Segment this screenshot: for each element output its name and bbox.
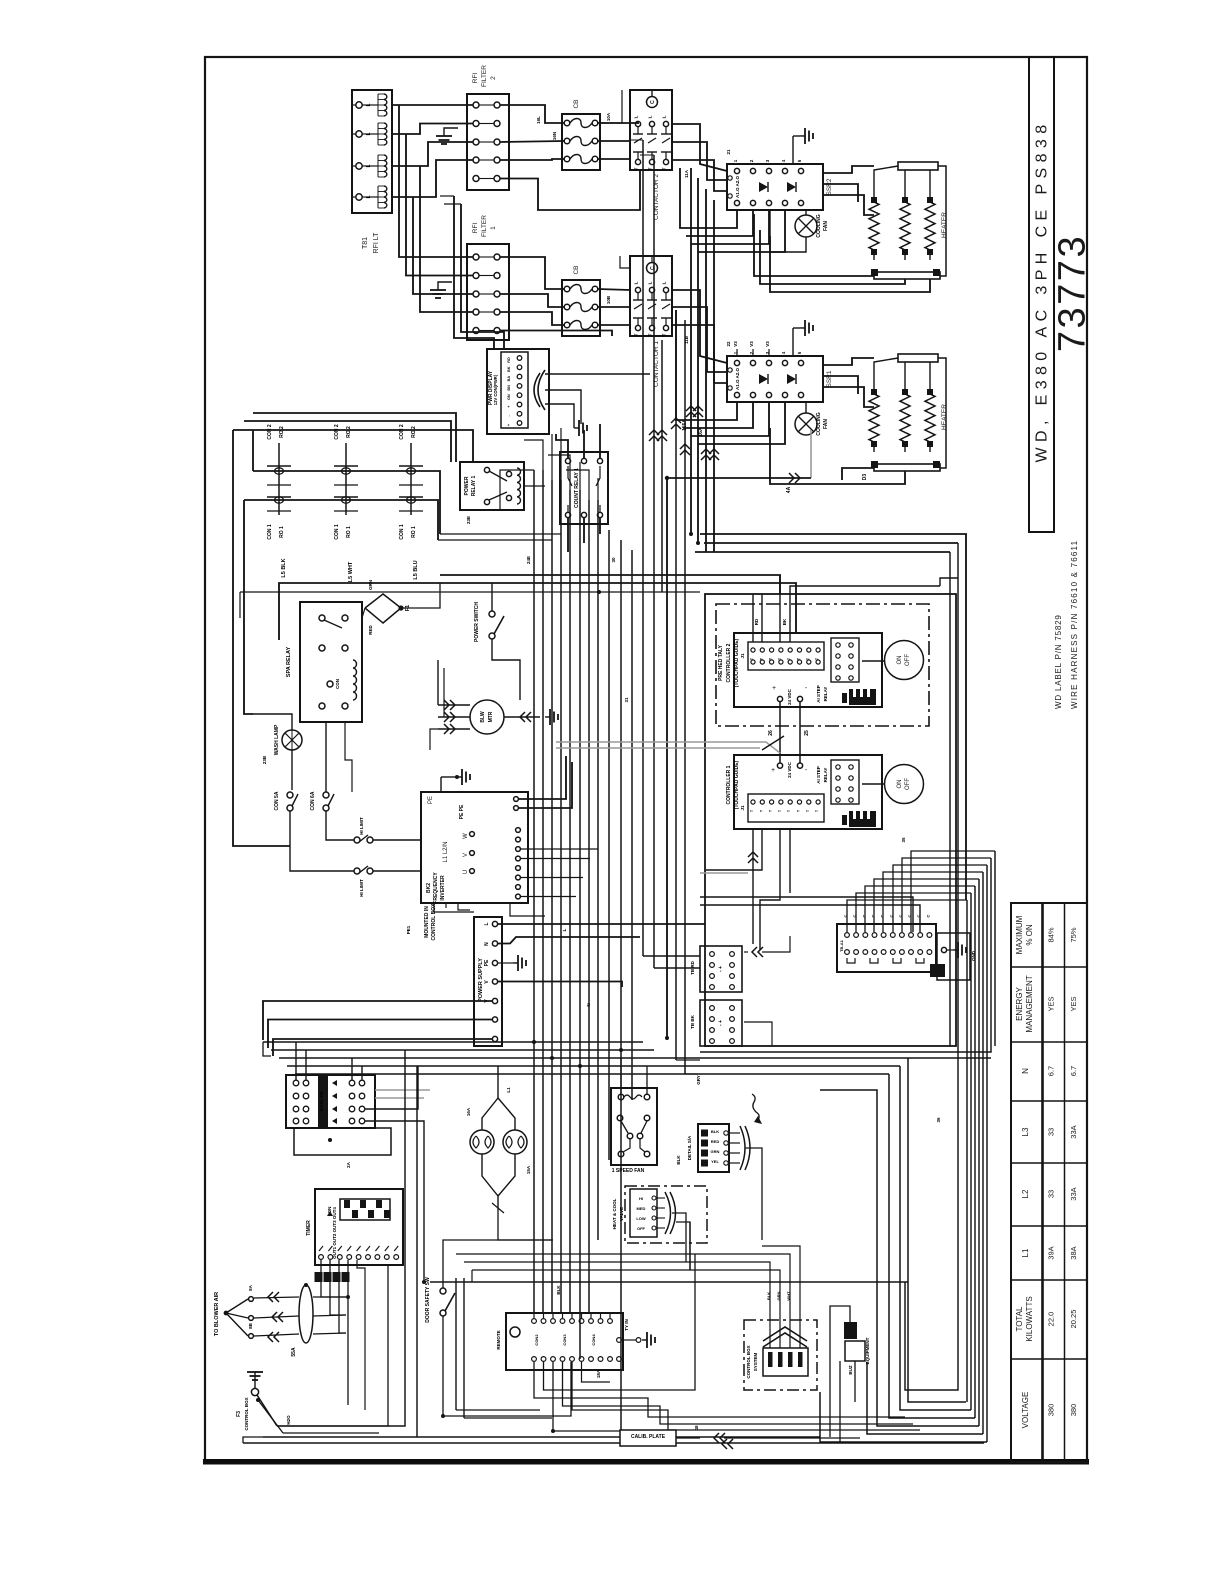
SSR2 output terminal 1 (734, 200, 739, 205)
wire TB1 long drop D (420, 166, 473, 312)
TB3 lower terminal (872, 950, 877, 955)
svg-text:1 SPEED FAN: 1 SPEED FAN (612, 1168, 645, 1174)
svg-text:L: L (662, 115, 667, 118)
svg-text:T: T (806, 657, 810, 660)
display terminal (517, 384, 522, 389)
svg-text:RO 1: RO 1 (279, 526, 285, 538)
svg-text:1: 1 (490, 226, 497, 230)
svg-text:AI STEP: AI STEP (816, 766, 821, 784)
svg-text:TY IN: TY IN (624, 1319, 629, 1330)
power supply terminal (492, 960, 497, 965)
svg-text:FILTER: FILTER (481, 65, 488, 87)
svg-text:-: - (507, 414, 511, 416)
contactor CONTACTOR 2 coil (647, 97, 658, 108)
J2 bottom pin (560, 1357, 565, 1362)
bus top connections (500, 470, 534, 510)
bus wire x621 (620, 540, 622, 1437)
svg-text:26: 26 (768, 730, 774, 736)
junction wire from fan1 to bus (667, 478, 811, 1038)
TB3 upper terminal (872, 933, 877, 938)
power relay 1 body (460, 462, 524, 510)
svg-text:REMOTE: REMOTE (496, 1330, 501, 1349)
svg-text:TB BK: TB BK (690, 1014, 695, 1028)
spare relay contacts (319, 615, 325, 621)
svg-text:55A: 55A (291, 1347, 297, 1357)
svg-text:WD LABEL P/N 75829: WD LABEL P/N 75829 (1054, 614, 1063, 709)
svg-text:TB-A1: TB-A1 (839, 939, 844, 952)
wire RFI1 row5 across (500, 331, 612, 337)
heater bank1 return wire (842, 468, 874, 480)
drawing border (205, 57, 1087, 1462)
power display inner connector (501, 352, 528, 428)
bus wire x561 (560, 480, 562, 1313)
svg-text:CON 1: CON 1 (267, 524, 273, 540)
fuse block CB1 (562, 280, 600, 336)
svg-text:10A: 10A (606, 112, 611, 121)
breaker output wires (365, 1066, 418, 1109)
svg-text:RO 2: RO 2 (411, 426, 417, 438)
hose squiggle symbol (752, 1094, 759, 1120)
wire TB1 to RFI1 long drop C (413, 197, 473, 294)
svg-text:21: 21 (726, 149, 731, 155)
contactor CONTACTOR 2 body (630, 90, 672, 170)
svg-text:VALVE: VALVE (619, 1207, 624, 1221)
SSR1 input terminal 5 (798, 360, 803, 365)
bus wire x609 (608, 530, 610, 1160)
diamond wires (401, 583, 440, 608)
svg-text:SSR1: SSR1 (826, 370, 833, 387)
power supply body (474, 917, 502, 1046)
left bus joins hi-limit (232, 845, 234, 847)
svg-text:KILOWATTS: KILOWATTS (1025, 1296, 1034, 1341)
svg-text:T: T (759, 657, 763, 660)
heat cool valve dash box (625, 1186, 707, 1243)
svg-text:25: 25 (804, 730, 810, 736)
power switch (489, 611, 495, 617)
svg-text:2: 2 (490, 76, 497, 80)
svg-text:PE1: PE1 (406, 925, 411, 934)
CONTROLLER 1 body (734, 755, 882, 829)
detail connector row YEL (701, 1160, 708, 1167)
svg-text:39A: 39A (1047, 1246, 1056, 1259)
svg-text:EQUIPMENT: EQUIPMENT (865, 1337, 870, 1364)
svg-text:11B: 11B (684, 335, 689, 344)
contactor CONTACTOR 2 pole 3 (663, 121, 668, 126)
svg-text:V: V (463, 853, 469, 857)
bus wire x676 (675, 310, 677, 1060)
TB3 upper terminal (918, 933, 923, 938)
svg-text:2: 2 (749, 159, 754, 162)
SSR1 diode symbol A (759, 374, 768, 384)
fan relay body (611, 1088, 657, 1165)
count relay terminal (581, 512, 586, 517)
lamp bottom X mark (492, 1203, 504, 1213)
SSR input top stubs (736, 349, 738, 356)
svg-text:T: T (806, 809, 810, 812)
svg-text:RD: RD (754, 618, 759, 625)
svg-text:CONTROL BOX: CONTROL BOX (244, 1397, 249, 1430)
svg-text:8A: 8A (248, 1284, 253, 1291)
breaker pole 1 right (349, 1080, 355, 1086)
svg-text:N: N (484, 942, 490, 946)
svg-text:16A: 16A (466, 1107, 471, 1116)
SSR2 coil input drops (680, 168, 737, 228)
svg-text:C: C (925, 914, 930, 917)
inverter bottom drop (510, 903, 545, 916)
svg-text:COOLING: COOLING (816, 214, 822, 237)
svg-text:HI: HI (639, 1196, 643, 1201)
svg-text:C: C (650, 100, 656, 104)
svg-text:T: T (648, 333, 653, 336)
svg-text:73773: 73773 (1052, 234, 1094, 352)
heater bank 1 bottom bar (874, 464, 940, 471)
svg-text:BLK: BLK (766, 1292, 771, 1300)
svg-text:L1 L2/N: L1 L2/N (443, 841, 449, 862)
spec table frame (1011, 903, 1087, 1462)
breaker pole 3 right (349, 1106, 355, 1112)
bus wire x598 (597, 500, 599, 1240)
nested wires to relay (253, 413, 456, 462)
svg-text:T: T (769, 657, 773, 660)
SSR2 input terminal 1 (734, 168, 739, 173)
display terminal (517, 365, 522, 370)
TB1 terminal 2 (356, 131, 362, 137)
TB3 upper terminal (845, 933, 850, 938)
svg-text:OUT1 OUT2 OUT3 OUT4: OUT1 OUT2 OUT3 OUT4 (332, 1207, 337, 1259)
svg-text:CON 6A: CON 6A (310, 791, 316, 810)
timer junction squares (315, 1272, 323, 1282)
right nest bottom corners (908, 1058, 966, 1402)
TB3 lower terminal (909, 950, 914, 955)
rail lamps to right (498, 1208, 553, 1240)
svg-text:22: 22 (726, 341, 731, 347)
ON OFF switch circle 1 (885, 765, 924, 804)
svg-text:C: C (871, 914, 876, 917)
inverter right terminal wires (520, 848, 598, 850)
svg-text:T81: T81 (362, 237, 369, 249)
svg-text:1: 1 (733, 159, 738, 162)
ground above SSR2 (800, 135, 805, 137)
SSR2 input terminal 3 (766, 168, 771, 173)
power supply terminal (492, 941, 497, 946)
svg-text:YEL: YEL (711, 1159, 719, 1164)
detail connector row BLK (701, 1130, 708, 1137)
heater bank1 top wires (874, 358, 898, 384)
horizontal bus A (263, 1041, 643, 1043)
door safety switch (440, 1288, 446, 1294)
RFI2 terminal pair (473, 157, 479, 163)
heater resistor lead bottom (904, 250, 906, 260)
hi-limit outputs to inverter (373, 839, 421, 841)
rail above J2 B (464, 1261, 686, 1263)
right nest verticals (966, 900, 968, 1402)
contactor1 output wires (672, 290, 727, 363)
step relay box right of TB3 (937, 933, 970, 980)
svg-text:L5 WHT: L5 WHT (348, 561, 354, 582)
J2 top pin (541, 1319, 546, 1324)
svg-text:VOLTAGE: VOLTAGE (1021, 1392, 1030, 1429)
count relay terminal (597, 458, 602, 463)
border bottom thick edge (203, 1459, 1089, 1465)
CONTROLLER 2 aux connector (831, 638, 859, 682)
heater resistor (869, 394, 879, 442)
svg-text:L: L (366, 164, 372, 167)
svg-text:BK2: BK2 (426, 883, 432, 893)
svg-text:L: L (648, 281, 653, 284)
heater bank1 side loop (938, 358, 946, 468)
fuse block CB2 (562, 114, 600, 170)
svg-text:3: 3 (765, 159, 770, 162)
bus wire x580 (579, 490, 581, 1359)
heater bank2 return wires (754, 214, 874, 276)
svg-text:V: V (484, 980, 490, 984)
SSR2 input terminal 5 (798, 168, 803, 173)
J2 top pin (589, 1319, 594, 1324)
inverter top exit wires (519, 756, 566, 799)
heater bank 2 bottom bar (874, 272, 940, 279)
TB3 left feeds (700, 897, 913, 932)
svg-text:L: L (366, 132, 372, 135)
wire contactor2 coil link (651, 91, 653, 96)
detail connector body (698, 1124, 729, 1172)
svg-text:T: T (787, 809, 791, 812)
contactor CONTACTOR 2 pole 2 (649, 121, 654, 126)
RFI1 terminal pair (473, 254, 479, 260)
svg-text:RED: RED (368, 625, 373, 635)
SSR1 left terminals (728, 368, 732, 372)
svg-text:V3: V3 (749, 341, 754, 347)
count relay 1 body (560, 452, 608, 524)
controller enclosure box (705, 594, 956, 1046)
J2 top pin (532, 1319, 537, 1324)
blower motor right wire (504, 716, 540, 718)
svg-text:12V CON(PWR): 12V CON(PWR) (493, 374, 498, 405)
fuse CB2 element (564, 156, 570, 162)
wire RFI2 to CB2 mid (500, 141, 564, 142)
svg-text:L5 BLK: L5 BLK (281, 558, 287, 577)
svg-text:DOOR SAFETY SW: DOOR SAFETY SW (425, 1277, 431, 1323)
svg-text:CONTROLLER 1: CONTROLLER 1 (726, 765, 732, 804)
svg-text:CON3: CON3 (562, 1334, 567, 1346)
svg-text:L: L (484, 922, 490, 925)
CONTROLLER 2 barcode (849, 689, 876, 705)
svg-text:33: 33 (1047, 1190, 1056, 1198)
F3 wire stem (254, 1372, 256, 1388)
svg-text:RO 1: RO 1 (346, 526, 352, 538)
power display block (487, 349, 549, 434)
fuse CB2 element (564, 138, 570, 144)
svg-text:HEAT & COOL: HEAT & COOL (612, 1198, 617, 1229)
SSR1 coil input drops (676, 310, 737, 420)
left long bus down (244, 500, 253, 714)
heater resistor (925, 394, 935, 442)
svg-text:T: T (787, 657, 791, 660)
heater resistor lead top (904, 192, 906, 202)
J2 top pin (551, 1319, 556, 1324)
TB3 lower terminal (845, 950, 850, 955)
suppressor column 1 (278, 443, 280, 515)
SSR2 left terminals (728, 176, 732, 180)
heater resistor lead bottom (873, 250, 875, 260)
switch CON 5A (287, 792, 293, 798)
wire contactor1 coil to left (620, 256, 630, 268)
svg-text:ON: ON (897, 780, 903, 789)
wire TB1 to RFI1 long drop A (399, 105, 473, 257)
control box inner box (763, 1348, 808, 1376)
contactor CONTACTOR 1 body (630, 256, 672, 336)
CONTROLLER 1 barcode (849, 811, 876, 827)
power relay 1 contacts (484, 467, 489, 472)
breaker pole 1 left (293, 1080, 299, 1086)
TB3 bracket marks (847, 958, 855, 963)
wire TB1 to RFI1 long drop B (406, 134, 473, 276)
svg-text:MAXIMUM: MAXIMUM (1015, 915, 1024, 954)
svg-text:WIRE HARNESS P/N 76610 & 76611: WIRE HARNESS P/N 76610 & 76611 (1070, 540, 1079, 709)
svg-text:PE: PE (484, 959, 490, 966)
SSR1 output terminal 4 (782, 392, 787, 397)
svg-text:T: T (778, 657, 782, 660)
svg-text:CON2: CON2 (534, 1334, 539, 1346)
title block strip (1029, 57, 1054, 532)
svg-text:+: + (507, 423, 511, 426)
breaker pole 3 left (293, 1106, 299, 1112)
main breaker block (286, 1075, 375, 1128)
chevron marks lower (701, 449, 711, 454)
valve chevron arc (665, 1192, 671, 1234)
to blower air fanout (224, 1311, 229, 1316)
svg-text:BN: BN (507, 385, 511, 391)
svg-text:V3: V3 (733, 341, 738, 347)
svg-text:T: T (769, 809, 773, 812)
control box pin bar (788, 1352, 793, 1367)
TB3 upper terminal (890, 933, 895, 938)
heat cool valve inner box (630, 1189, 657, 1237)
power relay 1 coil (517, 468, 521, 504)
svg-text:COOLING: COOLING (816, 412, 822, 435)
breaker gray wires (375, 1089, 430, 1091)
svg-text:HI LIMIT: HI LIMIT (359, 817, 364, 835)
SSR2 output terminal 4 (782, 200, 787, 205)
SSR1 output terminal 3 (766, 392, 771, 397)
control box feed bends (686, 1262, 770, 1300)
svg-text:4: 4 (781, 351, 786, 354)
CONTROLLER 1 aux connector (831, 760, 859, 804)
RFI2 terminal pair (473, 102, 479, 108)
svg-text:A1.O A2.O: A1.O A2.O (735, 367, 740, 390)
svg-text:CONTROL BOX: CONTROL BOX (746, 1345, 751, 1378)
J2 ground (621, 1339, 636, 1341)
svg-text:38A: 38A (1069, 1246, 1078, 1259)
top horizontal to controller (432, 583, 796, 633)
detail connector chevron arc (740, 1126, 745, 1170)
svg-text:T: T (815, 657, 819, 660)
svg-text:RELAY: RELAY (823, 687, 828, 702)
svg-text:H2O: H2O (286, 1415, 291, 1425)
blower motor (470, 700, 504, 734)
calib plate box (620, 1430, 676, 1446)
svg-text:CALIB. PLATE: CALIB. PLATE (631, 1434, 666, 1440)
F3 ground (247, 1371, 263, 1373)
svg-text:16L: 16L (536, 116, 541, 124)
valve output wires (672, 1213, 686, 1262)
display terminal (517, 374, 522, 379)
heater resistor (900, 202, 910, 250)
detail connector merge wires (745, 1148, 762, 1240)
svg-text:OFF: OFF (905, 778, 911, 790)
svg-text:SPA RELAY: SPA RELAY (286, 646, 292, 677)
bus wire x570 (569, 490, 571, 1313)
svg-text:V3: V3 (765, 341, 770, 347)
F3 wires right (277, 1265, 388, 1426)
TB3 upper terminal (927, 933, 932, 938)
CONTROLLER 2 connector strip (748, 642, 824, 670)
indicator lamp A (470, 1130, 494, 1154)
SSR1 output return loops (691, 401, 769, 436)
bottom long rail A (263, 1436, 820, 1438)
heater resistor lead top (929, 384, 931, 394)
terminal block lower A chevrons (752, 947, 757, 957)
equipment box (845, 1341, 865, 1361)
heater resistor lead bottom (904, 442, 906, 452)
power supply ground (513, 962, 518, 964)
timer terminals (319, 1255, 324, 1260)
heater bank2 feed wires from SSR2 (823, 166, 874, 173)
svg-text:T: T (662, 167, 667, 170)
svg-text:6.7: 6.7 (1069, 1066, 1078, 1076)
timer dip switch (340, 1199, 390, 1220)
TB1 terminal 1 (356, 102, 362, 108)
svg-text:33A: 33A (1069, 1187, 1078, 1200)
TB3 lower terminal (881, 950, 886, 955)
power supply terminal (492, 921, 497, 926)
svg-text:J1: J1 (740, 653, 745, 659)
display feed wire (454, 196, 494, 349)
svg-text:BK: BK (507, 366, 511, 372)
wire TB1 to RFI2 row2 (392, 124, 473, 135)
svg-text:OFF: OFF (905, 654, 911, 666)
svg-text:WD, E380 AC 3PH CE PS838: WD, E380 AC 3PH CE PS838 (1034, 119, 1051, 462)
bus wire x685 (684, 320, 686, 1074)
svg-text:-: - (805, 767, 808, 774)
right nest vertical from top B (905, 543, 958, 1390)
svg-text:BK: BK (782, 618, 787, 625)
power supply wires right (498, 923, 705, 925)
indicator lamp B (503, 1130, 527, 1154)
svg-text:CON 1: CON 1 (399, 524, 405, 540)
gray wire to controller1 (556, 742, 780, 753)
RFI1 terminal pair (473, 291, 479, 297)
svg-text:36: 36 (936, 1117, 941, 1123)
svg-text:PE: PE (428, 796, 434, 804)
TB1 terminal 4 (356, 194, 362, 200)
svg-text:L: L (366, 195, 372, 198)
svg-text:CON 2: CON 2 (267, 424, 273, 440)
svg-text:T: T (750, 809, 754, 812)
heater resistor (925, 202, 935, 250)
svg-text:COUNT RELAY 1: COUNT RELAY 1 (574, 468, 580, 508)
svg-text:U: U (463, 870, 469, 874)
breaker pole 4 left (293, 1118, 299, 1124)
gray wire into tb block (700, 872, 748, 874)
svg-text:31: 31 (624, 697, 629, 703)
F3 thermostat contact (251, 1388, 258, 1395)
suppressor bus upper (253, 471, 440, 534)
ground at blower (545, 716, 550, 718)
display terminal (517, 421, 522, 426)
svg-text:N: N (586, 1003, 591, 1006)
horizontal bus D (287, 1065, 900, 1067)
horizontal bus C (279, 1057, 991, 1059)
